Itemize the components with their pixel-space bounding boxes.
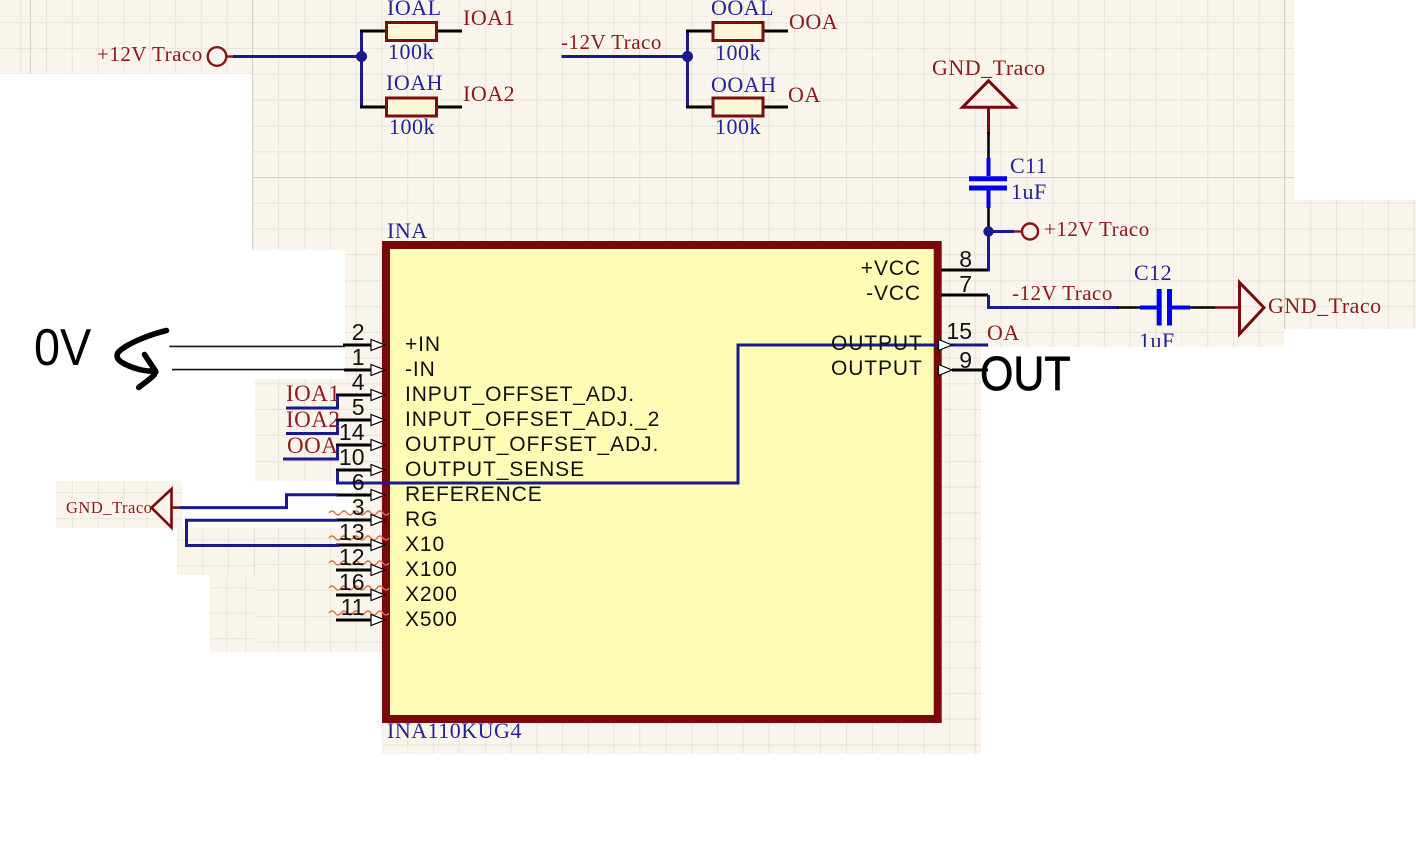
- pin 1 arrow: [371, 365, 385, 376]
- resistor OOAL body: [713, 23, 763, 41]
- pin 6 number: [315, 471, 365, 494]
- node junction at -12V branch: [682, 51, 693, 62]
- pin 10 arrow: [371, 465, 385, 476]
- pin 9 number: [922, 349, 972, 372]
- pin 11 name X500: [405, 609, 458, 630]
- wire -12V Traco to junction: [562, 55, 688, 58]
- pin 15 arrow: [939, 340, 953, 351]
- resistor IOAL body: [387, 23, 437, 41]
- power port text +12V Traco (top-left): [97, 44, 203, 65]
- pin 12 arrow: [371, 565, 385, 576]
- pin 3 name RG: [405, 509, 438, 530]
- pin 7 name -VCC: [831, 283, 921, 304]
- capacitor C11 designator: [1010, 155, 1047, 177]
- pin 1 name -IN: [405, 359, 436, 380]
- power port text -12V Traco (top): [561, 32, 662, 53]
- net label OOA (pin 14): [287, 434, 338, 457]
- error squiggle pin 16: [329, 586, 389, 590]
- resistor IOAH body: [387, 98, 437, 116]
- node junction C11/+12V: [983, 226, 993, 236]
- resistor OOAH leads: [686, 106, 713, 109]
- white region beside GND_Traco patch: [182, 481, 355, 528]
- pin 6 arrow: [371, 490, 385, 501]
- wire net label OOA to pin 14: [283, 446, 338, 459]
- white region top-right: [1294, 0, 1416, 200]
- capacitor C12 value 1uF (clipped): [1139, 330, 1175, 347]
- pin 12 stub: [336, 569, 382, 572]
- power port text GND_Traco (right): [1268, 295, 1382, 317]
- tick to +12V circle: [1014, 230, 1021, 232]
- part value INA110KUG4: [387, 720, 522, 742]
- resistor OOAH body: [713, 98, 763, 116]
- power port +12V Traco (top-left) circle: [208, 47, 227, 66]
- major grid line v x=252: [252, 0, 253, 379]
- pin 9 stub: [952, 369, 988, 372]
- net label IOA1 (pin 4): [286, 382, 340, 405]
- wire pin7 to C12: [989, 295, 1119, 308]
- pin 14 arrow: [371, 440, 385, 451]
- wire left GND to REFERENCE pin 6: [180, 495, 338, 508]
- resistor IOAL value 100k: [388, 41, 434, 63]
- pin 13 arrow: [371, 540, 385, 551]
- power port GND_Traco (right) triangle: [1240, 282, 1265, 334]
- pin 5 number: [315, 396, 365, 419]
- node junction at +12V branch: [356, 51, 367, 62]
- pin 15 name OUTPUT: [831, 333, 921, 354]
- major grid line v x=1284: [1284, 0, 1285, 332]
- power port +12V Traco (mid) circle: [1022, 224, 1038, 240]
- wire junction to +12V port: [989, 230, 1015, 233]
- error squiggle pin 11: [329, 611, 389, 615]
- pin 9 arrow: [939, 365, 953, 376]
- pin 8 name +VCC: [831, 258, 921, 279]
- white region left-top: [0, 74, 252, 250]
- pin 5 arrow: [371, 415, 385, 426]
- pin 2 arrow: [371, 340, 385, 351]
- pin 4 stub: [336, 394, 382, 397]
- pin 5 name INPUT_OFFSET_ADJ._2: [405, 409, 660, 430]
- pin 7 number: [922, 273, 972, 296]
- pin 8 stub: [941, 269, 988, 272]
- pin 1 number: [315, 346, 365, 369]
- error squiggle pin 12: [329, 561, 389, 565]
- white region right-edge: [1284, 329, 1416, 851]
- annotation text OUT: [980, 350, 1071, 399]
- net label IOA1 (top): [463, 7, 515, 29]
- capacitor C11 upper black lead: [987, 132, 990, 160]
- wire vertical OOAL/OOAH branch: [686, 31, 689, 107]
- pin 10 stub: [336, 469, 382, 472]
- net label OA (pin 15): [987, 322, 1020, 344]
- op-amp block U1 INA110KUG4 body: [386, 245, 938, 719]
- major grid line h y=177: [252, 177, 1416, 178]
- wire vertical IOAL/IOAH branch: [360, 31, 363, 107]
- pin 3 arrow: [371, 515, 385, 526]
- pin 13 stub: [336, 544, 382, 547]
- pin 6 name REFERENCE: [405, 484, 543, 505]
- resistor IOAH value 100k: [389, 116, 435, 138]
- GND_Traco left stem: [172, 506, 182, 509]
- pin 5 stub: [336, 419, 382, 422]
- pin 12 number: [315, 546, 365, 569]
- white region bottom-right: [981, 347, 1416, 851]
- pin 3 stub: [336, 519, 382, 522]
- capacitor C12 right black lead: [1190, 306, 1215, 309]
- pin 16 arrow: [371, 590, 385, 601]
- pin 10 number: [315, 446, 365, 469]
- handwritten squiggle arrow: [117, 331, 166, 372]
- power port text GND_Traco (top): [932, 57, 1046, 79]
- power port text +12V Traco (mid): [1044, 219, 1150, 240]
- pin 4 number: [315, 371, 365, 394]
- capacitor C12 designator: [1134, 262, 1172, 284]
- pin 16 name X200: [405, 584, 458, 605]
- pin 13 name X10: [405, 534, 445, 555]
- resistor IOAL designator: [387, 0, 442, 19]
- pin 14 number: [315, 421, 365, 444]
- grid patch lower-left 1: [177, 528, 255, 575]
- GND_Traco stem (dark red): [987, 108, 990, 135]
- pin 11 arrow: [371, 615, 385, 626]
- net label OA (top): [788, 84, 821, 106]
- thin annotation line to +IN: [169, 345, 345, 347]
- grid patch around left GND_Traco label: [56, 481, 182, 528]
- pin 9 name OUTPUT: [831, 358, 921, 379]
- major grid line v x=30: [30, 0, 31, 74]
- error squiggle pin 13: [329, 536, 389, 540]
- white region below pins: [255, 652, 382, 851]
- pin 13 number: [315, 521, 365, 544]
- wire RG to X10 loop: [187, 520, 340, 545]
- resistor OOAL leads: [686, 30, 713, 33]
- resistor IOAH leads: [360, 106, 387, 109]
- pin 1 stub: [344, 369, 382, 372]
- power port GND_Traco (top) triangle: [963, 81, 1016, 108]
- wire net label IOA1 to pin 4: [286, 396, 338, 408]
- capacitor C11 value 1uF: [1011, 181, 1047, 203]
- net label IOA2 (top): [463, 83, 515, 105]
- resistor IOAL leads: [360, 30, 387, 33]
- pin 16 number: [315, 571, 365, 594]
- white region left-middle: [0, 250, 345, 379]
- pin 2 stub: [343, 344, 382, 347]
- pin 11 number: [315, 596, 365, 619]
- net label OOA (top): [789, 11, 838, 33]
- resistor OOAL designator: [711, 0, 774, 19]
- pin 2 number: [315, 321, 365, 344]
- capacitor C12 left black lead: [1117, 306, 1141, 309]
- pin 14 stub: [336, 444, 382, 447]
- GND_Traco right stem: [1215, 306, 1240, 309]
- capacitor C12 graphic: [1140, 306, 1157, 310]
- part designator INA: [387, 220, 428, 242]
- white region bottom band: [0, 754, 1416, 851]
- grid patch lower-left 2: [210, 575, 255, 652]
- pin 12 name X100: [405, 559, 458, 580]
- pin 11 stub: [336, 619, 382, 622]
- pin 2 name +IN: [405, 334, 441, 355]
- wire OUTPUT pin15 to OUTPUT_SENSE pin10: [338, 345, 988, 483]
- power port text GND_Traco (left): [66, 500, 152, 517]
- pin 3 number: [315, 496, 365, 519]
- pin 10 name OUTPUT_SENSE: [405, 459, 585, 480]
- net label IOA2 (pin 5): [286, 408, 340, 431]
- pin 14 name OUTPUT_OFFSET_ADJ.: [405, 434, 659, 455]
- error squiggle pin 3: [329, 511, 389, 515]
- capacitor C11 lower black lead: [987, 208, 990, 227]
- capacitor C11 graphic: [987, 158, 991, 176]
- power port GND_Traco (left) triangle: [152, 489, 172, 528]
- wire net label IOA2 to pin 5: [286, 421, 338, 434]
- wire C11 to pin 8: [987, 226, 989, 270]
- pin 8 number: [922, 248, 972, 271]
- pin 16 stub: [336, 594, 382, 597]
- net label -12V Traco (wire): [1012, 283, 1113, 304]
- wire +12V to junction: [233, 55, 362, 58]
- pin 15 number: [922, 320, 972, 343]
- pin 7 stub: [941, 294, 988, 297]
- resistor OOAH designator: [711, 74, 777, 96]
- annotation text 0V: [34, 322, 91, 374]
- tick from port circle: [226, 55, 233, 57]
- pin 4 arrow: [371, 390, 385, 401]
- resistor OOAH value 100k: [715, 116, 761, 138]
- thin annotation line to -IN: [172, 369, 346, 371]
- resistor OOAL value 100k: [715, 42, 761, 64]
- pin 6 stub: [336, 494, 382, 497]
- resistor IOAH designator: [386, 72, 443, 94]
- pin 15 stub: [941, 344, 988, 347]
- pin 4 name INPUT_OFFSET_ADJ.: [405, 384, 635, 405]
- white region left-lower: [0, 379, 255, 851]
